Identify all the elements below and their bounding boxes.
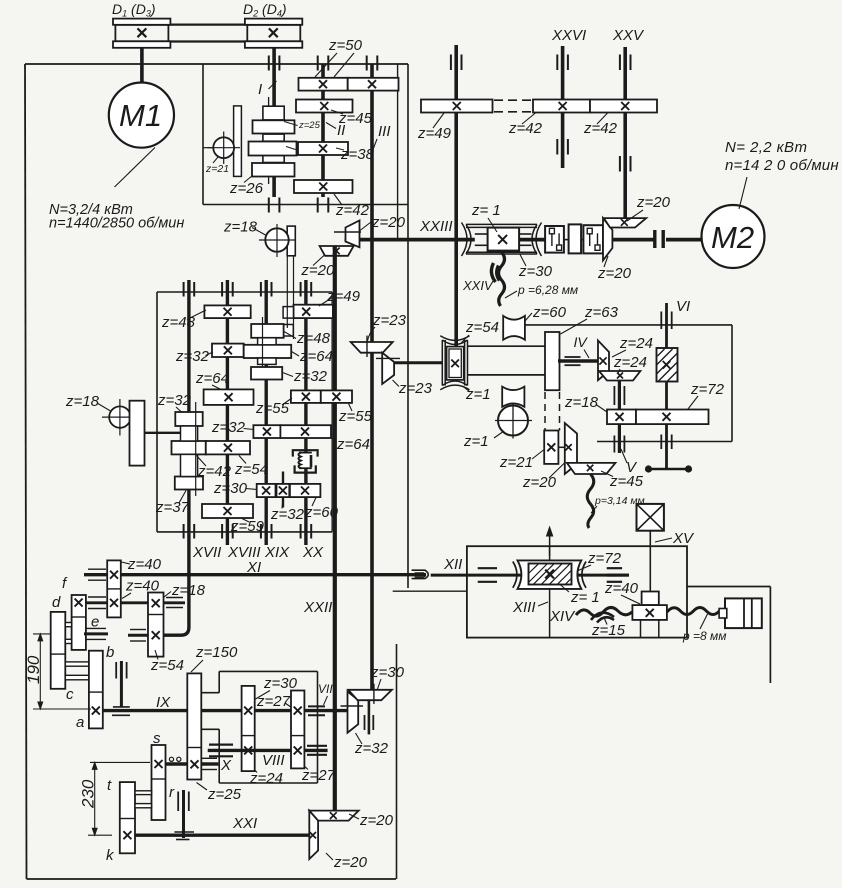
- label z=18 (headstock): [223, 219, 266, 236]
- label z=150: [191, 644, 238, 672]
- svg-text:z=54: z=54: [465, 319, 499, 336]
- bevel z=20 (shaft XXI end): [309, 811, 318, 859]
- rod sliders: [283, 307, 293, 336]
- bearing VIII right: [307, 746, 327, 755]
- svg-text:XIV: XIV: [549, 608, 576, 625]
- label z=54 (riser): [462, 319, 499, 343]
- stub shaft e: [84, 628, 108, 639]
- dashed shaft joint: [494, 100, 531, 112]
- slip joint XI-XII: [412, 570, 429, 578]
- label z=49: [417, 113, 452, 142]
- label z=60: [525, 304, 567, 321]
- gear b/a column: [89, 651, 103, 729]
- svg-text:c: c: [66, 686, 74, 703]
- bearing XXVI top: [557, 55, 568, 71]
- label z=64 (row G right): [332, 436, 370, 453]
- svg-text:z=18: z=18: [223, 219, 258, 236]
- mesh line z=21 to bevel: [558, 446, 564, 448]
- bearing XVII bottom: [184, 524, 195, 539]
- svg-text:z=15: z=15: [591, 622, 626, 639]
- gear z=50 pair (shafts II/III): [299, 78, 399, 91]
- svg-text:z=72: z=72: [587, 550, 622, 567]
- bracket z=18 feed: [130, 401, 145, 466]
- gear z=64 (shaft XVIII lower): [204, 389, 254, 405]
- svg-text:XXVI: XXVI: [551, 27, 586, 44]
- svg-text:VII: VII: [318, 682, 333, 696]
- crossed box XV: [637, 504, 664, 531]
- label XXIV: [462, 278, 494, 293]
- label z=24 (apron): [249, 764, 283, 787]
- bearing XX top: [301, 282, 312, 297]
- svg-text:XVII: XVII: [192, 544, 221, 561]
- label z=32 (idler): [270, 499, 305, 524]
- label z=24 (IV): [612, 335, 653, 357]
- belt: [115, 25, 300, 42]
- label z=54 (XVIII): [234, 456, 268, 479]
- shaft X: [166, 758, 219, 769]
- right gearbox housing: [525, 325, 732, 442]
- handwheel z=1: [495, 404, 532, 439]
- svg-text:190: 190: [24, 655, 43, 684]
- shaft XXVI: [561, 46, 565, 168]
- gear z=48 (shaft XVIII top): [204, 305, 250, 318]
- ratchet dots shaft X: [169, 757, 181, 761]
- svg-text:p=3,14 мм: p=3,14 мм: [594, 495, 645, 507]
- svg-text:z=23: z=23: [372, 312, 407, 329]
- bevel z=32 (shaft VII end): [348, 692, 359, 733]
- screw XXIV wavy: [491, 252, 504, 306]
- label M1 speed: [49, 216, 184, 232]
- svg-text:XII: XII: [443, 556, 462, 573]
- bearing XXVI bottom: [557, 139, 568, 155]
- label XI: [246, 559, 261, 576]
- svg-text:a: a: [76, 714, 84, 731]
- gear z=26 (shaft I): [252, 163, 295, 177]
- label z=72 (XIII): [577, 550, 622, 571]
- svg-text:z=20: z=20: [300, 262, 335, 279]
- svg-text:p =6,28 мм: p =6,28 мм: [517, 283, 578, 297]
- pulley D2 (D4): [245, 19, 302, 48]
- label z=60 (XX): [304, 498, 339, 522]
- table axis arrow: [547, 527, 553, 556]
- svg-text:z=49: z=49: [326, 288, 361, 305]
- bearing XI left: [88, 569, 106, 580]
- svg-text:z=32: z=32: [211, 419, 246, 436]
- wheel z=15 arcs: [591, 613, 614, 623]
- svg-text:z=25: z=25: [298, 120, 321, 131]
- label z=30 (wheel): [518, 255, 553, 281]
- bevel z=24 (shaft IV): [598, 341, 609, 381]
- worm z=1 (handwheel): [502, 387, 524, 407]
- leader M1 text: [115, 148, 156, 188]
- label II: [326, 122, 345, 139]
- label XII: [443, 556, 462, 573]
- safety clutch (shaft VI): [657, 348, 678, 382]
- bearing shaft II top: [318, 56, 329, 71]
- coupling (to M2): [655, 230, 663, 248]
- bearing VI top: [661, 312, 671, 330]
- label z=45: [331, 110, 373, 127]
- bevel z=20 (shaft XXII top): [320, 246, 354, 256]
- svg-text:XXII: XXII: [303, 599, 332, 616]
- svg-text:z=32: z=32: [354, 740, 389, 757]
- svg-text:М1: М1: [119, 98, 162, 133]
- svg-text:XXIII: XXIII: [419, 218, 453, 235]
- label D1 (D3): [112, 1, 156, 19]
- worm z=60 symbol: [503, 316, 525, 340]
- label z=72 (VI): [688, 381, 725, 409]
- bearing XVIII top: [222, 282, 233, 297]
- label z=42 (XXV): [583, 113, 618, 138]
- gear z=30 (shaft I): [249, 142, 297, 156]
- gear z=60 (shaft XX): [290, 484, 321, 497]
- label z=18 (feed): [65, 393, 111, 411]
- shaft IX: [103, 709, 188, 712]
- shaft XVIII: [226, 280, 229, 545]
- shaft f-d: [86, 601, 148, 604]
- label XXI: [232, 815, 257, 832]
- label z=64 (XIX): [292, 348, 333, 365]
- vertical shaft III end bearing: [365, 700, 374, 734]
- svg-text:X: X: [220, 757, 232, 774]
- label z=20 (right): [360, 214, 406, 231]
- label XIX: [264, 544, 290, 561]
- shaft XXI: [127, 834, 308, 837]
- shaft z=18/z=54 upper: [164, 598, 186, 608]
- svg-text:XXV: XXV: [612, 27, 645, 44]
- svg-text:z=20: z=20: [359, 812, 394, 829]
- svg-text:z=64: z=64: [336, 436, 370, 453]
- svg-text:p =8 мм: p =8 мм: [682, 629, 726, 643]
- label VI: [676, 298, 690, 315]
- label z=1 (XIII): [561, 585, 600, 606]
- svg-text:z=25: z=25: [207, 786, 242, 803]
- gear z=18 (shaft V): [607, 410, 636, 425]
- svg-text:z=30: z=30: [213, 480, 248, 497]
- guitar pivot stub: [112, 661, 130, 715]
- crank handle: [645, 465, 692, 472]
- gear f/d column: [72, 595, 86, 650]
- svg-text:XV: XV: [672, 530, 695, 547]
- gear z=49 (riser): [421, 100, 493, 113]
- label f: [62, 575, 68, 592]
- svg-text:z=20: z=20: [522, 474, 557, 491]
- label z=48 (left): [161, 310, 206, 331]
- label z=1 (riser worm): [463, 386, 491, 403]
- shaft IV: [558, 359, 598, 362]
- shaft VIII: [208, 749, 328, 752]
- gear z=55 (shaft XXII): [321, 390, 352, 403]
- svg-text:z=20: z=20: [597, 265, 632, 282]
- screw XIV wavy right: [667, 608, 720, 615]
- label z=40 (upper): [122, 556, 162, 573]
- label z=1 (worm XXIII): [471, 202, 501, 232]
- svg-text:z= 1: z= 1: [570, 589, 600, 606]
- svg-text:z=32: z=32: [175, 348, 210, 365]
- idler gear z=32 (stub): [277, 472, 290, 508]
- gear z=25 (shaft I): [253, 120, 295, 133]
- label z=15: [591, 618, 626, 640]
- svg-text:XXI: XXI: [232, 815, 257, 832]
- svg-text:IX: IX: [156, 694, 171, 711]
- label XXIII: [419, 218, 453, 235]
- svg-text:z=40: z=40: [604, 580, 639, 597]
- headstock casing wall: [203, 64, 408, 205]
- label z=30 (XIX): [213, 480, 257, 497]
- label z=32 (XIX): [283, 368, 328, 385]
- label z=30 (apron): [256, 675, 298, 699]
- label z=32 (bevel): [354, 733, 389, 757]
- label X: [220, 757, 232, 774]
- apron housing: [201, 671, 317, 783]
- label z=40 (XIV): [604, 580, 640, 604]
- vertical shaft to z=49: [454, 45, 458, 349]
- bearing XX bottom: [301, 524, 312, 539]
- bevel z=20 (shaft XXV bottom): [604, 218, 646, 227]
- bearing shaft I bottom: [269, 198, 280, 213]
- svg-text:z=42: z=42: [508, 120, 543, 137]
- gear z=54 (shaft XVIII): [206, 441, 250, 454]
- label XX: [302, 544, 324, 561]
- machine outer frame: [25, 64, 408, 879]
- label IX: [156, 694, 171, 711]
- dashed shaft XIV riser: [545, 392, 560, 431]
- label z=27 (apron upper): [256, 693, 292, 710]
- svg-text:z=37: z=37: [155, 499, 190, 516]
- motor M1: [109, 83, 174, 148]
- svg-text:z=30: z=30: [370, 664, 405, 681]
- bearing XIX top: [261, 282, 272, 297]
- label z=42 (XXVI): [508, 113, 543, 138]
- shaft XVII: [187, 280, 190, 532]
- handwheel gear z=18 (feed): [102, 399, 138, 436]
- svg-text:z=32: z=32: [293, 368, 328, 385]
- svg-text:z=20: z=20: [371, 214, 406, 231]
- label V: [621, 449, 638, 476]
- label z=24 (V): [613, 354, 647, 373]
- bearing XXV bottom: [620, 156, 631, 172]
- label z=20 (below, M2 area): [597, 256, 632, 282]
- label XXV: [612, 27, 645, 44]
- svg-text:z=49: z=49: [417, 125, 452, 142]
- bearing XVIII bottom: [222, 524, 233, 539]
- svg-text:z=18: z=18: [564, 394, 599, 411]
- label z=20 (XXII bottom): [349, 812, 394, 829]
- label z=45: [601, 471, 644, 490]
- svg-text:n=14 2 0 об/мин: n=14 2 0 об/мин: [725, 157, 839, 174]
- svg-text:z=21: z=21: [205, 163, 229, 175]
- svg-text:XX: XX: [302, 544, 324, 561]
- gear z=18/z=54 column: [148, 593, 164, 657]
- gear z=42 (shaft XXVI): [533, 100, 590, 113]
- label z=32 (XVIII): [175, 348, 213, 365]
- bevel z=23 (horizontal): [382, 353, 394, 384]
- label XV: [655, 530, 695, 547]
- label z=55 (left): [255, 398, 292, 417]
- bearing XXV top: [620, 55, 631, 71]
- label z=25: [284, 120, 321, 131]
- svg-text:z=63: z=63: [584, 304, 619, 321]
- label XXVI: [551, 27, 586, 44]
- shaft XXIII: [345, 238, 702, 242]
- shaft XV vertical: [649, 531, 651, 592]
- svg-text:s: s: [153, 730, 161, 747]
- label r: [169, 784, 175, 801]
- svg-text:b: b: [106, 644, 114, 661]
- svg-text:z=26: z=26: [229, 180, 264, 197]
- bevel z=20 (shaft XXIII): [346, 221, 360, 248]
- bearing riser top: [451, 55, 462, 71]
- svg-text:IV: IV: [574, 334, 589, 350]
- coupling middle: [569, 224, 582, 253]
- label z=21: [205, 157, 229, 175]
- svg-text:230: 230: [79, 779, 98, 809]
- label c: [66, 686, 74, 703]
- bearing IV: [565, 357, 581, 365]
- svg-text:z=27: z=27: [301, 767, 336, 784]
- svg-text:z=24: z=24: [613, 354, 647, 371]
- label z=42 (shaft II): [334, 194, 370, 219]
- label XXII: [303, 599, 332, 616]
- guide line below XII: [393, 590, 467, 592]
- label s: [153, 730, 161, 747]
- svg-text:z=50: z=50: [328, 37, 363, 54]
- svg-text:I: I: [258, 81, 262, 98]
- bearing VI lower: [661, 435, 671, 450]
- svg-text:z=42: z=42: [335, 202, 370, 219]
- svg-text:z=30: z=30: [518, 263, 553, 280]
- label z=27 (apron lower): [300, 762, 336, 784]
- cone gear z=37 (shaft XVII): [175, 477, 203, 490]
- label M1 power: [49, 202, 133, 218]
- cone sleeves XVII: [181, 426, 198, 477]
- screw XIV wavy left: [576, 608, 632, 617]
- label z=18 (V): [564, 394, 607, 412]
- table drive housing: [467, 546, 687, 637]
- bevel z=45: [567, 463, 616, 474]
- label p=3,14: [591, 495, 645, 513]
- svg-text:z=48: z=48: [296, 330, 331, 347]
- sleeve XIX cluster: [258, 338, 277, 365]
- label III: [373, 123, 391, 150]
- dimension 190: [24, 634, 91, 709]
- motor M2: [702, 205, 765, 268]
- bearing shaft III top: [367, 56, 378, 71]
- gear z=55 (shaft XX): [291, 390, 321, 403]
- label z=30 (bevel): [370, 664, 405, 689]
- gear z=72 (shaft VI): [636, 410, 709, 425]
- shaft handwheel to cone: [145, 432, 182, 434]
- bearing VII right: [308, 706, 325, 715]
- svg-text:z=42: z=42: [197, 463, 232, 480]
- gear z=32 (shaft XVIII): [212, 344, 244, 357]
- svg-text:z=64: z=64: [195, 370, 229, 387]
- label VIII: [262, 752, 285, 769]
- label z=20 (below): [300, 255, 335, 280]
- bearing z=54 left: [128, 630, 148, 642]
- svg-text:VI: VI: [676, 298, 690, 315]
- svg-text:z=1: z=1: [465, 386, 491, 403]
- spring safety clutch (shaft XX): [293, 450, 318, 472]
- label z=25: [197, 783, 242, 804]
- bearing tick VII bevel: [341, 705, 364, 707]
- frame line right of housing: [687, 587, 770, 684]
- svg-text:XIII: XIII: [512, 599, 536, 616]
- label b: [106, 644, 114, 661]
- rail XVII cone: [195, 402, 197, 496]
- svg-text:z=1: z=1: [463, 433, 489, 450]
- gear s column: [152, 745, 166, 820]
- svg-text:z=60: z=60: [532, 304, 567, 321]
- svg-text:z=21: z=21: [499, 454, 533, 471]
- svg-text:z=54: z=54: [150, 657, 184, 674]
- bearing V lower: [614, 436, 624, 453]
- gear z=42 (shaft II): [294, 180, 353, 193]
- svg-text:z=20: z=20: [636, 194, 671, 211]
- label z=48 (right): [284, 330, 331, 347]
- shaft XX: [304, 280, 307, 545]
- svg-text:z=45: z=45: [338, 110, 373, 127]
- label z=38: [336, 146, 375, 163]
- bearing XIX bottom: [261, 524, 272, 539]
- gear z=30/z=24 column (VII/VIII): [242, 686, 255, 771]
- bearing shaft I top: [269, 56, 280, 71]
- gear z=45 (shaft II): [296, 100, 353, 113]
- label z=49 (feed box): [319, 288, 361, 306]
- label z=55 (right): [338, 404, 373, 426]
- shaft XII: [431, 574, 629, 577]
- bevel z=23 (shaft III... vertical): [351, 336, 393, 357]
- label z=23 (lower): [393, 380, 433, 397]
- label XIV: [549, 608, 576, 625]
- label z=64 (XVIII): [195, 370, 229, 390]
- svg-text:z=20: z=20: [333, 854, 368, 871]
- bearing tick XXIII: [334, 231, 361, 233]
- label D2 (D4): [243, 1, 287, 19]
- leader M2 text: [739, 177, 747, 209]
- label z=20 (above, M2 area): [627, 194, 671, 221]
- bearing XII left: [478, 568, 497, 582]
- bearing V upper: [614, 386, 624, 405]
- shaft I: [272, 48, 276, 197]
- svg-text:XIX: XIX: [264, 544, 290, 561]
- bevel z=30 (vertical shaft): [348, 684, 392, 704]
- svg-text:z=64: z=64: [299, 348, 333, 365]
- svg-text:III: III: [378, 123, 391, 140]
- bar to z=63: [468, 346, 546, 375]
- idler gear z=21: [203, 132, 240, 165]
- cone gear z=32 (shaft XVII): [175, 412, 202, 426]
- svg-text:z=32: z=32: [270, 506, 305, 523]
- svg-text:d: d: [52, 594, 61, 611]
- worm z=1 / wheel z=30 on screw XXIV: [462, 223, 542, 257]
- leadscrew p=3,14 wavy: [587, 474, 594, 528]
- label XVII: [192, 544, 221, 561]
- svg-text:z=60: z=60: [304, 504, 339, 521]
- svg-text:z=18: z=18: [65, 393, 100, 410]
- label z=37 (cone): [155, 491, 190, 517]
- gear z=48 (shaft XIX): [251, 324, 283, 338]
- bevel z=24 (shaft V): [599, 371, 640, 381]
- label M2 speed: [725, 157, 839, 174]
- shift rods near XX: [287, 256, 293, 339]
- svg-text:z= 1: z= 1: [471, 202, 501, 219]
- shaft III: [370, 64, 374, 700]
- svg-text:z=55: z=55: [338, 408, 373, 425]
- bearing tick z23: [376, 357, 400, 359]
- gear c/d tall column: [51, 612, 66, 689]
- label z=63: [561, 304, 619, 334]
